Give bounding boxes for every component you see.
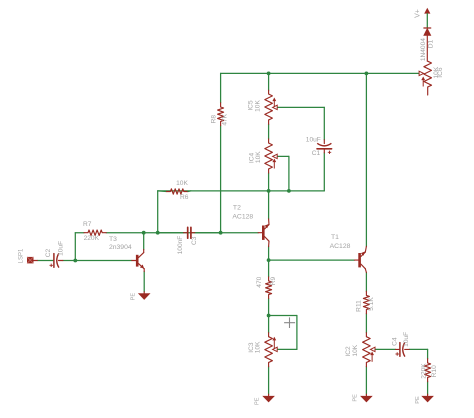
potentiometer IC6 10K bbox=[424, 61, 432, 87]
svg-text:10K: 10K bbox=[254, 100, 261, 112]
wire IC4 wiper branch bbox=[273, 155, 289, 157]
resistor R6 10K bbox=[158, 190, 167, 193]
svg-text:220K: 220K bbox=[84, 235, 100, 242]
wire IC5 wiper row to C1 column bbox=[277, 106, 324, 108]
wire T2 base row y=232.7 bbox=[158, 232, 184, 234]
transistor T1 AC128 PNP bbox=[358, 253, 361, 267]
polarity + of C4 bbox=[396, 352, 399, 355]
svg-text:C1: C1 bbox=[312, 150, 321, 157]
resistor R9 470 bbox=[268, 277, 270, 281]
resistor R7 220K bbox=[84, 232, 88, 234]
wire T2 emitter up to mid bus bbox=[268, 191, 270, 219]
svg-text:1N4004: 1N4004 bbox=[420, 38, 427, 61]
svg-text:10uF: 10uF bbox=[58, 241, 65, 256]
capacitor C4 10uF polarized bbox=[396, 348, 400, 350]
svg-text:PE: PE bbox=[254, 397, 260, 405]
potentiometer IC4 10K bbox=[268, 139, 270, 143]
wire C1 column lower bbox=[323, 153, 325, 191]
junction base row/R6 column bbox=[156, 231, 160, 235]
wire R8 column top bbox=[220, 73, 222, 102]
svg-text:R10: R10 bbox=[431, 365, 438, 377]
diode D1 1N4004 bbox=[424, 27, 431, 29]
potentiometer IC5 10K bbox=[268, 90, 270, 94]
svg-text:10K: 10K bbox=[255, 151, 262, 163]
transistor T2 AC128 PNP bbox=[262, 226, 265, 240]
svg-text:V+: V+ bbox=[415, 9, 422, 18]
junction base row/R8 column bbox=[219, 231, 223, 235]
wire T3 emitter down to ground bbox=[143, 272, 145, 292]
wire IC3 junction to wiper loop bbox=[269, 315, 297, 317]
V+ supply symbol bbox=[424, 8, 430, 14]
junction base row/T3 collector bbox=[142, 231, 146, 235]
resistor R10 220K bbox=[427, 359, 429, 363]
ground below IC3 bbox=[268, 394, 270, 396]
solder pad LSP1 bbox=[27, 257, 34, 264]
svg-text:R9: R9 bbox=[270, 276, 277, 285]
wire IC3 bottom to ground bbox=[268, 367, 270, 395]
potentiometer IC3 10K bbox=[268, 333, 270, 337]
svg-text:T1: T1 bbox=[331, 234, 339, 241]
svg-text:220K: 220K bbox=[420, 363, 427, 379]
svg-text:D1: D1 bbox=[427, 39, 434, 48]
wire T1 collector column bbox=[365, 73, 367, 246]
svg-text:2n3904: 2n3904 bbox=[109, 244, 132, 251]
wire R8 column bottom (crosses mid bus, no junction) bbox=[220, 126, 222, 233]
svg-text:AC128: AC128 bbox=[232, 213, 253, 220]
svg-text:10K: 10K bbox=[176, 180, 188, 187]
svg-text:10K: 10K bbox=[352, 344, 359, 356]
svg-text:470: 470 bbox=[256, 276, 263, 287]
wire R10 bottom to ground bbox=[427, 382, 429, 395]
potentiometer IC2 10K bbox=[365, 333, 367, 337]
capacitor C2 10uF polarized input bbox=[53, 254, 55, 268]
svg-text:47K: 47K bbox=[221, 113, 228, 125]
svg-text:C3: C3 bbox=[191, 236, 198, 245]
wire C2 to T3 base bbox=[63, 260, 132, 262]
wire IC5-IC4 link bbox=[268, 124, 270, 139]
polarity + of C2 bbox=[50, 264, 53, 267]
svg-text:10K: 10K bbox=[255, 341, 262, 353]
ground below T3 bbox=[143, 292, 145, 294]
wire R6 left column bbox=[157, 191, 159, 233]
wire R7 row left end bbox=[75, 232, 84, 234]
wire input row LSP1-C2 bbox=[37, 260, 53, 262]
svg-text:C2: C2 bbox=[45, 248, 52, 257]
junction rail/T1 collector bbox=[365, 72, 369, 76]
svg-text:IC6: IC6 bbox=[437, 67, 444, 78]
wire T3 collector up bbox=[143, 233, 145, 250]
wire IC5 top to rail bbox=[268, 73, 270, 90]
wire R9 bottom to IC3 junction bbox=[268, 299, 270, 316]
svg-text:PE: PE bbox=[131, 293, 137, 301]
wire R9 top bbox=[268, 260, 270, 277]
wire R7 to T3 collector junction bbox=[106, 232, 220, 234]
svg-text:5.1K: 5.1K bbox=[368, 297, 375, 311]
svg-text:T3: T3 bbox=[109, 236, 117, 243]
svg-text:R8: R8 bbox=[210, 115, 217, 124]
wire IC4 bottom to mid bus bbox=[268, 173, 270, 191]
wire IC2 bottom to ground bbox=[365, 367, 367, 395]
wire IC2 wiper to C4 bbox=[376, 348, 396, 350]
svg-text:T2: T2 bbox=[233, 205, 241, 212]
junction T1 base row/R9 bbox=[267, 258, 271, 262]
wire mid bus y=190.9 bbox=[158, 190, 325, 192]
wire C1 column upper bbox=[323, 107, 325, 139]
wire T1 emitter to R11 bbox=[365, 273, 367, 292]
svg-text:10uF: 10uF bbox=[403, 332, 410, 347]
ground below IC2 bbox=[365, 394, 367, 396]
wire T2-T1 base row y=260.1 bbox=[269, 259, 355, 261]
svg-text:R6: R6 bbox=[180, 194, 189, 201]
junction mid bus/IC4 wiper bbox=[287, 189, 291, 193]
svg-text:100nF: 100nF bbox=[177, 236, 184, 255]
wire C4 to R10 corner bbox=[409, 348, 427, 350]
wire R11 to IC2 bbox=[365, 314, 367, 333]
wire T2 collector down bbox=[268, 247, 270, 261]
svg-text:R11: R11 bbox=[355, 300, 362, 312]
polarity + of C1 bbox=[328, 151, 331, 154]
junction R9/IC3 wiper branch bbox=[267, 314, 271, 318]
capacitor C1 10uF polarized bbox=[323, 140, 325, 144]
svg-text:AC128: AC128 bbox=[330, 243, 351, 250]
svg-text:C4: C4 bbox=[392, 337, 399, 346]
svg-text:LSP1: LSP1 bbox=[18, 248, 24, 263]
svg-text:PE: PE bbox=[352, 394, 358, 402]
resistor R11 5.1K bbox=[365, 291, 367, 295]
transistor T3 2n3904 NPN bbox=[136, 255, 139, 267]
wire top rail V+ wiper net y=73.4 bbox=[221, 72, 420, 74]
cursor crosshair bbox=[284, 317, 295, 328]
junction mid bus/T2 emitter/IC4 bbox=[267, 189, 271, 193]
resistor R8 47K bbox=[220, 103, 222, 107]
junction rail/IC5 bbox=[267, 72, 271, 76]
wire R7 left drop bbox=[74, 233, 76, 261]
ground below R10 bbox=[427, 394, 429, 396]
svg-text:R7: R7 bbox=[83, 221, 92, 228]
capacitor C3 100nF bbox=[184, 232, 188, 234]
svg-text:10uF: 10uF bbox=[306, 136, 321, 143]
junction input row/R7 drop bbox=[73, 259, 77, 263]
svg-text:PE: PE bbox=[415, 396, 421, 404]
wire IC3 top bbox=[268, 316, 270, 333]
